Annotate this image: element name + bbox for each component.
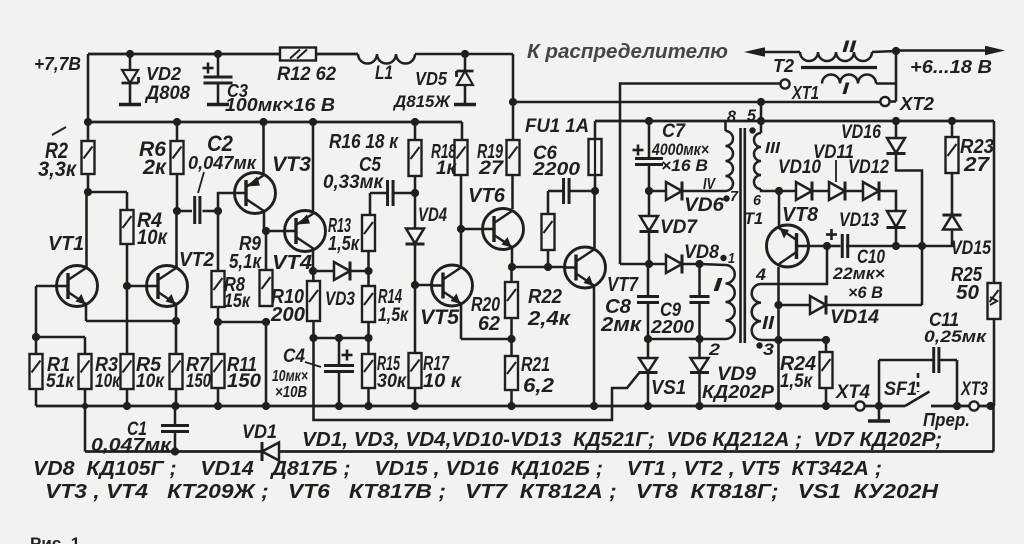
capacitor C10 22uF	[841, 234, 844, 258]
wire R16 top lead	[414, 122, 417, 140]
svg-text:1,5к: 1,5к	[328, 233, 360, 255]
diode VD1	[262, 443, 279, 461]
wire R14 bottom lead	[367, 322, 370, 338]
node secondary rail C7	[645, 117, 653, 125]
wire VT8 collector to pin3	[777, 305, 780, 340]
wire C2 left lead	[177, 210, 192, 213]
node bus R21	[507, 402, 515, 410]
svg-text:10мк×: 10мк×	[272, 368, 308, 385]
wire R10 top lead	[312, 271, 315, 281]
wire R5 bottom lead	[126, 389, 129, 406]
phase dot pin3	[756, 342, 762, 348]
wire right edge column lower	[993, 319, 996, 406]
transistor VT8 KT818G	[767, 225, 809, 267]
wire VS1 anode lead	[647, 339, 650, 358]
fuse FU1 1A	[589, 139, 602, 175]
wire XT2 stub	[890, 100, 897, 103]
wire link to winding I pin2	[700, 338, 727, 341]
node bus R17	[411, 402, 419, 410]
wire C5 left lead	[370, 192, 388, 195]
wire C7 bottom lead	[648, 165, 651, 191]
node VD4 VT5 base	[411, 281, 419, 289]
diode VD11	[829, 182, 845, 200]
svg-text:×10В: ×10В	[275, 384, 307, 401]
svg-text:2,4к: 2,4к	[527, 308, 571, 330]
wire C7 top lead	[648, 121, 651, 158]
node C10 right VD13	[892, 242, 900, 250]
svg-text:3: 3	[763, 340, 775, 359]
wire VT3 collector lead	[263, 212, 266, 231]
wire SF1 dashed link	[917, 373, 920, 392]
svg-text:ХТ1: ХТ1	[791, 83, 819, 103]
wire R10 bottom lead	[312, 321, 315, 338]
node R16 C5 VD4	[411, 189, 419, 197]
svg-text:SF1: SF1	[884, 379, 917, 400]
wire VD3 right lead	[351, 270, 369, 273]
diode VD14	[810, 296, 826, 314]
wire R6 bottom lead	[176, 174, 179, 211]
svg-text:5: 5	[747, 106, 757, 125]
wire C10 right lead	[846, 245, 896, 248]
resistor R1 51k	[30, 354, 43, 389]
svg-text:200: 200	[270, 304, 305, 326]
wire VD6 left lead	[649, 190, 666, 193]
wire VD6 to pin7	[683, 190, 726, 193]
wire R22 bottom lead	[547, 250, 550, 267]
wire VT8 emitter lead	[778, 191, 781, 226]
node VT8 collector VD14	[774, 301, 782, 309]
wire R17 bottom lead	[414, 388, 417, 406]
svg-text:1к: 1к	[436, 158, 457, 179]
svg-text:8: 8	[727, 107, 737, 126]
terminal XT2	[880, 97, 889, 106]
chassis bar VD2	[119, 103, 141, 107]
svg-text:1: 1	[728, 250, 735, 267]
node VD2 top	[126, 50, 134, 58]
svg-text:30к: 30к	[377, 371, 407, 392]
svg-text:+7,7В: +7,7В	[34, 54, 81, 74]
node bus R15	[364, 402, 372, 410]
svg-text:27: 27	[478, 158, 505, 179]
resistor R6 2k	[171, 141, 184, 174]
capacitor C5 0.33uF	[386, 180, 389, 206]
node bus VT7 emitter	[590, 402, 598, 410]
wire top rail right segment	[415, 53, 513, 56]
wire node to R3	[36, 336, 85, 339]
stray mark above R2	[52, 127, 66, 135]
node rail2 R6	[173, 118, 181, 126]
resistor R14 1.5k	[362, 286, 375, 322]
terminal XT3	[969, 401, 978, 410]
resistor R5 10k	[121, 354, 134, 389]
resistor R15 30k	[362, 354, 375, 388]
wire T1 pin6 to rectifier	[761, 189, 779, 191]
svg-text:2: 2	[708, 340, 721, 359]
wire R18 bottom lead	[460, 175, 463, 229]
transformer T1 winding II	[752, 284, 761, 340]
wire R8 to R9 bottom link	[218, 321, 266, 324]
wire top-right corner down	[512, 54, 515, 102]
wire pin3 hook	[761, 339, 779, 342]
wire VT3 collector to VT4 base	[264, 230, 285, 233]
svg-text:+6...18 В: +6...18 В	[910, 57, 992, 77]
wire to +6..18V arrow	[896, 49, 986, 52]
node bus SF1	[875, 402, 883, 410]
node C7 bottom VD6	[645, 187, 653, 195]
svg-text:VT6: VT6	[468, 185, 506, 207]
inductor L1	[358, 54, 415, 64]
wire pin3 to R24	[779, 340, 827, 352]
svg-text:КД202Р: КД202Р	[702, 382, 775, 402]
svg-text:0,25мк: 0,25мк	[924, 327, 988, 346]
wire VT2 base lead	[127, 285, 147, 288]
wire ground bus	[36, 405, 905, 408]
callout C4	[305, 362, 321, 367]
node VT1 base bottom	[32, 333, 40, 341]
wire VD16 bottom jog	[896, 154, 922, 306]
resistor R8 15k	[212, 271, 225, 307]
svg-text:100мк×16 В: 100мк×16 В	[225, 95, 335, 115]
wire T2 winding II to node	[872, 51, 896, 52]
node VT8 base C10 pin4	[823, 242, 831, 250]
node VT6 emitter R20 R22	[508, 263, 516, 271]
wire left supply column	[87, 54, 90, 141]
wire VD2 bottom lead	[129, 83, 132, 104]
arrow +6..18V	[985, 46, 1005, 56]
svg-text:VD8 КД105Г ; VD14 Д817Б: VD8 КД105Г ; VD14 Д817Б ; VD15 , VD16 КД…	[33, 457, 882, 480]
wire +7.7V top rail left segment	[88, 53, 358, 56]
node C1 bottom	[171, 447, 179, 455]
transistor VT4 KT209Zh	[285, 211, 326, 252]
node rail2 left	[84, 118, 92, 126]
node R22 bottom	[544, 263, 552, 271]
wire VD14 left lead	[779, 304, 811, 307]
svg-text:62: 62	[478, 313, 500, 335]
node bus VS1	[644, 402, 652, 410]
svg-text:22мк×: 22мк×	[832, 264, 885, 283]
capacitor C4 10uF	[324, 364, 354, 367]
capacitor C1 0.047uF	[161, 424, 189, 427]
svg-text:VT3: VT3	[272, 153, 311, 176]
wire node to R4	[88, 191, 127, 194]
svg-text:10к: 10к	[136, 371, 165, 392]
svg-text:27: 27	[963, 154, 990, 176]
svg-text:×16 В: ×16 В	[661, 156, 708, 175]
resistor R20 62	[505, 282, 518, 318]
wire VS1 gate run	[314, 338, 640, 420]
resistor R4 10k	[121, 210, 134, 244]
diode VD9 KD202R	[691, 358, 709, 372]
wire VT1 emitter lead	[85, 305, 88, 321]
node C2 right	[214, 207, 222, 215]
resistor R9 5.1k	[260, 270, 273, 306]
wire R16 bottom lead	[414, 176, 417, 193]
wire SF1 lever	[905, 392, 930, 407]
wire VD12 to corner	[880, 191, 897, 210]
node bus R7 C1	[171, 402, 179, 410]
node XT2 rail corner	[509, 98, 517, 106]
svg-text:VT8: VT8	[782, 204, 819, 226]
wire C8 bottom lead	[647, 303, 650, 339]
wire emitters join	[86, 320, 176, 323]
wire XT2 feed rail	[513, 101, 881, 104]
node C8 bottom VS1	[644, 335, 652, 343]
node C9 bottom VD9	[695, 335, 703, 343]
wire R15 bottom lead	[367, 388, 370, 406]
capacitor C11 0.25uF	[932, 347, 935, 373]
node pin3 node	[774, 336, 782, 344]
svg-text:4: 4	[755, 265, 767, 284]
node emitters R7	[172, 317, 180, 325]
svg-text:1,5к: 1,5к	[378, 305, 409, 326]
ground chassis bar SF1	[868, 419, 890, 423]
svg-text:ХТ3: ХТ3	[960, 379, 988, 400]
svg-text:К распределителю: К распределителю	[527, 41, 728, 63]
svg-text:1,5к: 1,5к	[780, 371, 813, 392]
wire R14 top lead	[367, 271, 370, 286]
wire VD9 top lead	[698, 339, 701, 358]
callout C2	[198, 172, 204, 193]
transistor VT5 KT342A	[432, 265, 473, 306]
wire C2 right lead	[203, 210, 219, 213]
diode VD3	[334, 262, 350, 280]
wire R7 bottom lead	[175, 389, 178, 406]
wire R21 bottom lead	[510, 390, 513, 406]
node secondary rail VD16	[892, 117, 900, 125]
resistor R17 10k	[409, 353, 422, 388]
wire VT1 base column	[35, 286, 38, 337]
svg-text:R21: R21	[521, 354, 550, 376]
transformer T1 winding IV	[726, 131, 734, 191]
node VT4 base R9	[262, 227, 270, 235]
wire top rail mid segment	[316, 53, 358, 56]
wire VT6 base lead	[461, 228, 483, 231]
wire R20 top lead	[510, 267, 513, 282]
transistor VT3 KT209Zh	[235, 173, 276, 214]
diode VD4	[406, 229, 424, 244]
svg-text:Рис. 1: Рис. 1	[30, 534, 80, 544]
capacitor C3 100uF electrolytic	[204, 76, 233, 79]
wire VT4 collector lead	[312, 250, 315, 271]
transformer T2 winding II	[800, 52, 872, 61]
wire VT8 base lead	[809, 245, 828, 248]
node R14 bottom	[364, 334, 372, 342]
node secondary rail R23	[948, 117, 956, 125]
wire VT5 emitter to R20 bottom	[461, 338, 512, 341]
wire R23 top lead	[951, 121, 954, 137]
node bus R3	[82, 403, 88, 409]
svg-text:ХТ2: ХТ2	[899, 94, 934, 114]
phase dot winding III	[749, 127, 755, 133]
svg-text:R22: R22	[528, 286, 562, 308]
wire VD4 bottom lead	[414, 244, 417, 286]
wire VD16 top lead	[895, 121, 898, 138]
wire VT7 collector lead	[593, 191, 596, 248]
wire VD2 top lead	[129, 54, 132, 70]
svg-text:×6 В: ×6 В	[848, 283, 883, 302]
diode VD7	[640, 216, 658, 231]
wire SF1 ground stub	[878, 406, 881, 420]
resistor R11 150	[212, 354, 225, 388]
diode VD8	[666, 255, 682, 273]
wire XT1 corner	[620, 263, 649, 266]
node R6 bottom C2	[173, 207, 181, 215]
wire R4 bottom lead	[126, 244, 129, 286]
capacitor C6 2200	[562, 178, 565, 204]
node VT4 collector VD3	[309, 267, 317, 275]
svg-text:С7: С7	[662, 121, 686, 142]
wire R17 top lead	[414, 285, 417, 353]
wire R19 top lead	[512, 102, 515, 140]
svg-text:VD14: VD14	[830, 307, 879, 328]
capacitor C7 4000uF electrolytic	[635, 157, 663, 160]
wire VS1 cathode lead	[647, 372, 650, 406]
wire C6 right lead	[569, 190, 595, 193]
wire VD9 bottom lead	[698, 372, 701, 406]
wire R20 bottom lead	[510, 318, 513, 339]
wire SF1 riser	[878, 360, 881, 406]
wire VD7 bottom lead	[648, 233, 651, 265]
chassis bar VD5	[454, 103, 476, 107]
wire R19 bottom VT6 collector	[511, 175, 514, 209]
svg-text:VD4: VD4	[418, 205, 447, 226]
node bus pin3 column	[774, 402, 782, 410]
svg-text:VD1, VD3, VD4,VD10-VD13 КД521: VD1, VD3, VD4,VD10-VD13 КД521Г; VD6 КД21…	[302, 428, 942, 451]
svg-text:VT7: VT7	[607, 274, 639, 296]
wire C11 right drop	[956, 360, 959, 406]
wire output node link	[896, 245, 922, 248]
wire pin4 drop	[761, 246, 827, 284]
svg-text:VD1: VD1	[242, 422, 277, 443]
svg-text:5,1к: 5,1к	[229, 251, 262, 273]
wire FU1 top corner	[594, 121, 597, 139]
wire pin3 column to bus	[777, 340, 780, 406]
wire R15 top lead	[367, 338, 370, 354]
node R2 bottom	[84, 188, 92, 196]
svg-text:0,33мк: 0,33мк	[323, 172, 384, 193]
node VD8 C9 pin1	[695, 260, 703, 268]
transformer T1 winding IV pin8 lead	[724, 121, 727, 131]
svg-text:VD5: VD5	[415, 69, 448, 89]
node VD3 right R13 R14	[364, 267, 372, 275]
resistor R18 1k	[455, 140, 468, 175]
wire C10 left lead	[827, 245, 841, 248]
svg-text:Т2: Т2	[773, 56, 794, 76]
resistor R25 50	[988, 283, 1001, 319]
wire VD13 bottom lead	[895, 228, 898, 247]
wire C6 left lead	[548, 190, 564, 193]
svg-text:2200: 2200	[650, 317, 694, 337]
wire top rail to R12	[88, 53, 280, 56]
transistor VT7 KT812A	[565, 247, 606, 288]
svg-text:VT2: VT2	[179, 249, 214, 271]
svg-text:III: III	[765, 140, 781, 157]
wire VD5 top lead	[464, 54, 467, 71]
svg-text:10к: 10к	[95, 371, 121, 392]
wire C11 left lead	[879, 359, 934, 362]
wire VT5 collector lead	[460, 229, 463, 267]
resistor R21 6.2	[505, 356, 518, 390]
svg-text:IV: IV	[703, 176, 716, 193]
capacitor C8 2uF	[637, 295, 659, 298]
capacitor C9 2200	[690, 295, 710, 298]
svg-text:L1: L1	[375, 63, 393, 84]
node FU1 C6 VT7 collector	[591, 187, 599, 195]
wire VT5 emitter lead	[460, 304, 463, 339]
svg-text:50: 50	[956, 282, 979, 304]
transformer T1 winding I	[726, 265, 735, 339]
wire R5 top lead	[126, 286, 129, 354]
svg-text:VD2: VD2	[146, 64, 181, 84]
resistor R7 150	[170, 354, 183, 389]
wire C3 top lead	[217, 54, 220, 77]
node bus C11 right	[953, 402, 961, 410]
svg-text:7: 7	[730, 188, 739, 205]
resistor R19 27	[507, 140, 520, 175]
svg-text:10к: 10к	[137, 226, 168, 249]
node bus VD9	[695, 402, 703, 410]
wire VD14 right lead	[827, 304, 923, 307]
svg-text:6,2: 6,2	[523, 375, 554, 397]
wire R6 top lead	[176, 122, 179, 141]
svg-text:150: 150	[227, 371, 261, 392]
wire rail2 corner down to R18	[461, 122, 464, 140]
svg-text:15к: 15к	[224, 291, 251, 312]
resistor R12 62	[280, 48, 316, 61]
svg-text:VD3: VD3	[325, 289, 355, 310]
wire R1 bottom lead	[35, 389, 38, 406]
wire VD7 top lead	[648, 191, 651, 216]
wire XT2 column	[895, 51, 898, 102]
wire right edge to lower return	[992, 406, 995, 452]
wire T1 pin5 lead	[760, 102, 763, 133]
capacitor C2 0.047uF	[193, 196, 196, 224]
leader VD11	[835, 160, 837, 182]
svg-text:VT1: VT1	[48, 233, 84, 255]
svg-text:150: 150	[186, 371, 211, 392]
wire VT1 collector lead	[85, 192, 88, 267]
wire C8 top lead	[647, 264, 650, 296]
node T2 output	[892, 47, 900, 55]
svg-text:10 к: 10 к	[423, 371, 462, 392]
svg-text:ХТ4: ХТ4	[835, 382, 870, 403]
transformer T1 winding III	[754, 133, 761, 189]
resistor R10 200	[307, 281, 320, 321]
node bus R9col	[262, 402, 270, 410]
resistor R2 3.3k	[82, 141, 95, 174]
diode VD15	[943, 214, 962, 217]
wire R21 top lead	[510, 339, 513, 356]
wire C4 top stub	[338, 338, 341, 365]
wire VT5 base lead	[415, 284, 432, 287]
wire VT1 base lead	[36, 285, 57, 288]
thyristor VS1 KU202N	[639, 358, 657, 372]
svg-text:VD10: VD10	[778, 157, 821, 178]
svg-text:3,3к: 3,3к	[38, 158, 77, 181]
wire C1 bottom stub	[174, 432, 177, 452]
node R8 bottom	[214, 318, 222, 326]
diode VD6	[666, 182, 682, 200]
wire VT7 emitter lead	[593, 286, 596, 406]
wire C2 node up to VT3 base	[218, 193, 235, 211]
resistor R24 1.5k	[820, 352, 833, 388]
svg-text:II: II	[842, 37, 858, 56]
terminal XT4	[855, 401, 864, 410]
svg-text:VT5: VT5	[420, 306, 459, 329]
wire rail2 horizontal +7.7V distribution	[88, 121, 462, 124]
wire VD10-VD11 link	[813, 190, 830, 193]
wire C8-C9 bottoms link	[648, 338, 700, 341]
